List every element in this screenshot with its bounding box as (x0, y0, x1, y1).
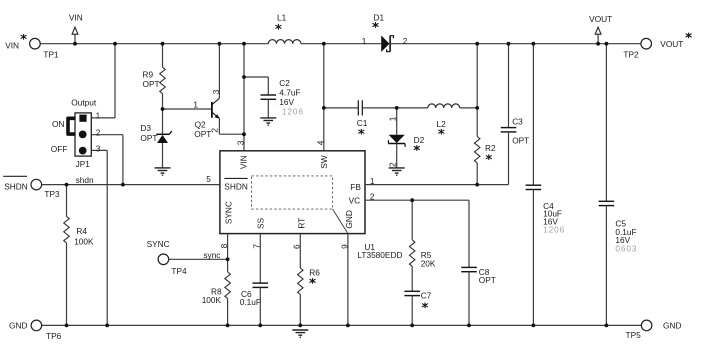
svg-text:1206: 1206 (282, 107, 304, 117)
svg-text:ON: ON (52, 119, 64, 129)
svg-text:2: 2 (403, 36, 408, 46)
svg-text:100K: 100K (202, 295, 222, 305)
svg-text:SS: SS (255, 217, 265, 229)
svg-text:4: 4 (315, 140, 325, 145)
svg-text:3: 3 (211, 89, 221, 94)
svg-text:GND: GND (663, 321, 681, 331)
svg-text:VIN: VIN (5, 40, 19, 50)
svg-text:VIN: VIN (238, 155, 248, 169)
svg-text:VC: VC (349, 195, 361, 205)
svg-text:R4: R4 (76, 226, 87, 236)
svg-text:SYNC: SYNC (147, 239, 170, 249)
svg-text:3: 3 (96, 144, 101, 154)
svg-text:JP1: JP1 (76, 159, 91, 169)
svg-text:Output: Output (71, 98, 97, 108)
svg-text:VIN: VIN (69, 13, 83, 23)
svg-text:TP5: TP5 (626, 330, 642, 340)
svg-text:GND: GND (9, 321, 27, 331)
svg-text:0.1uF: 0.1uF (240, 297, 261, 307)
svg-text:OPT: OPT (143, 79, 160, 89)
svg-text:1: 1 (362, 36, 367, 46)
svg-text:sync: sync (203, 250, 220, 260)
svg-text:OPT: OPT (140, 133, 157, 143)
svg-text:R2: R2 (485, 143, 496, 153)
svg-text:OPT: OPT (512, 136, 529, 146)
svg-text:0603: 0603 (615, 244, 637, 254)
svg-text:RT: RT (296, 218, 306, 229)
svg-text:VOUT: VOUT (589, 14, 612, 24)
svg-text:TP2: TP2 (623, 50, 639, 60)
svg-text:1: 1 (96, 110, 101, 120)
svg-text:SW: SW (319, 155, 329, 169)
svg-text:20K: 20K (421, 258, 436, 268)
svg-text:VOUT: VOUT (660, 39, 683, 49)
svg-text:2: 2 (387, 162, 397, 167)
svg-text:LT3580EDD: LT3580EDD (357, 250, 402, 260)
svg-text:1: 1 (193, 100, 198, 110)
svg-text:OFF: OFF (51, 144, 68, 154)
svg-text:C1: C1 (357, 118, 368, 128)
svg-text:TP1: TP1 (43, 50, 59, 60)
svg-text:R9: R9 (143, 69, 154, 79)
svg-text:D1: D1 (374, 12, 385, 22)
svg-text:C3: C3 (512, 116, 523, 126)
svg-text:D3: D3 (140, 123, 151, 133)
svg-text:SHDN: SHDN (4, 182, 28, 192)
svg-text:OPT: OPT (194, 129, 211, 139)
svg-text:OPT: OPT (479, 275, 496, 285)
svg-text:3: 3 (235, 140, 245, 145)
svg-text:5: 5 (206, 174, 211, 184)
svg-text:L1: L1 (277, 12, 287, 22)
svg-text:TP4: TP4 (171, 266, 187, 276)
svg-text:2: 2 (96, 128, 101, 138)
svg-text:R6: R6 (309, 268, 320, 278)
svg-text:FB: FB (350, 182, 361, 192)
svg-text:TP6: TP6 (46, 331, 62, 341)
svg-text:100K: 100K (74, 237, 94, 247)
svg-text:D2: D2 (414, 135, 425, 145)
svg-text:shdn: shdn (76, 175, 94, 185)
svg-text:1206: 1206 (543, 225, 565, 235)
svg-text:SHDN: SHDN (224, 181, 248, 191)
svg-text:SYNC: SYNC (223, 201, 233, 224)
svg-text:GND: GND (344, 210, 354, 228)
svg-text:TP3: TP3 (44, 189, 60, 199)
svg-text:1: 1 (388, 116, 398, 121)
svg-text:L2: L2 (437, 119, 447, 129)
svg-text:4.7uF: 4.7uF (279, 88, 300, 98)
svg-text:Q2: Q2 (195, 119, 206, 129)
svg-text:C7: C7 (421, 291, 432, 301)
